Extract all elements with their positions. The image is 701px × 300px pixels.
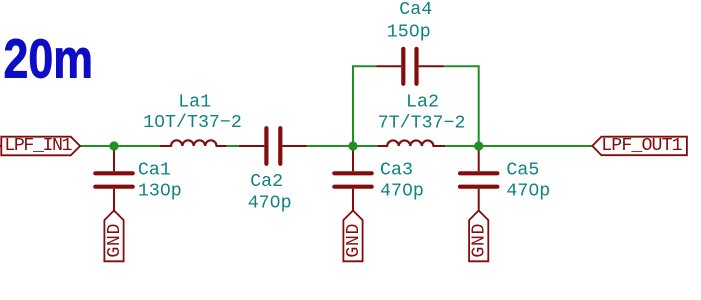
svg-text:Ca4: Ca4 [399, 0, 432, 20]
svg-text:Ca3: Ca3 [380, 160, 413, 180]
svg-text:470p: 470p [248, 193, 292, 213]
svg-text:130p: 130p [138, 182, 182, 202]
svg-text:Ca2: Ca2 [250, 172, 283, 192]
svg-text:7T/T37−2: 7T/T37−2 [378, 114, 466, 134]
svg-text:LPF_OUT1: LPF_OUT1 [601, 136, 682, 156]
svg-text:La1: La1 [178, 92, 211, 112]
svg-text:GND: GND [105, 223, 125, 258]
svg-text:La2: La2 [406, 93, 439, 113]
svg-text:Ca5: Ca5 [506, 160, 539, 180]
svg-text:GND: GND [470, 223, 490, 258]
svg-text:LPF_IN1: LPF_IN1 [4, 136, 72, 156]
svg-text:20m: 20m [4, 28, 93, 89]
svg-text:470p: 470p [380, 182, 424, 202]
svg-text:Ca1: Ca1 [138, 160, 171, 180]
svg-text:150p: 150p [387, 23, 431, 43]
svg-text:GND: GND [344, 223, 364, 258]
svg-text:470p: 470p [506, 182, 550, 202]
